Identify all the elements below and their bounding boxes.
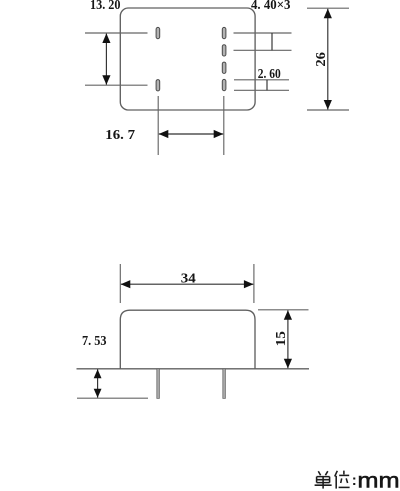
pin slot P1 (top left) [156,27,160,38]
svg-text:2. 60: 2. 60 [258,66,281,81]
dimension 15: extension lines [258,309,309,311]
pin slot P3 (middle column 1st) [222,27,226,38]
svg-text:16. 7: 16. 7 [105,127,135,142]
dimension 16.7: dimension line with arrows [159,130,224,138]
dimension 2.60: connector line [266,80,268,91]
unit note: colon and mm [352,469,400,491]
svg-text:26: 26 [313,52,328,67]
dimension 2.60: extension lines [234,80,289,91]
dimension 7.53: dimension line with arrows [94,369,102,398]
dimension 15: value label (rotated) [273,331,288,346]
svg-text:13. 20: 13. 20 [90,0,121,12]
svg-text:34: 34 [181,271,196,286]
base line under side view [77,368,310,370]
unit note: Chinese character WEI (position) [335,471,350,489]
relay top view body outline [120,8,255,110]
dimension 4.40x3: value label [251,0,291,12]
svg-text:15: 15 [273,331,288,346]
dimension 7.53: extension line [77,397,148,399]
relay side view body outline [120,310,255,369]
unit note: Chinese character DAN (single) [315,471,332,488]
dimension 16.7: extension lines [158,96,224,155]
svg-text::: : [352,472,357,489]
dimension 34: extension lines [120,264,254,303]
pin slot P6 (middle column 4th) [222,79,226,90]
dimension 26: dimension line with arrows [324,9,332,110]
pin slot P4 (middle column 2nd) [222,45,226,56]
dimension 13.20: value label [90,0,121,12]
dimension 16.7: value label [105,127,135,142]
dimension 34: dimension line with arrows [121,280,254,288]
dimension 13.20: dimension line with arrows [102,33,110,84]
dimension 26: value label (rotated) [313,52,328,67]
dimension 4.40x3: extension lines [234,33,292,50]
svg-text:7. 53: 7. 53 [82,333,107,348]
pin slot P2 (bottom left) [156,80,160,91]
svg-text:mm: mm [357,469,399,491]
pin slot P5 (middle column 3rd) [222,62,226,73]
pin lead left (side view) [157,369,160,399]
dimension 26: extension lines [307,8,349,110]
dimension 15: dimension line with arrows [284,310,292,368]
dimension 13.20: extension lines [85,33,148,85]
dimension 2.60: value label [258,66,281,81]
dimension 7.53: value label [82,333,107,348]
svg-text:4. 40×3: 4. 40×3 [251,0,291,12]
dimension 4.40x3: connector line [271,33,273,50]
pin lead right (side view) [223,369,226,399]
dimension 34: value label [181,271,196,286]
